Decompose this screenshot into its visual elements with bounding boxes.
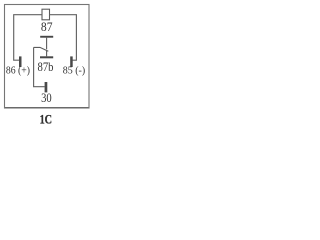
svg-text:87: 87 — [41, 20, 53, 34]
svg-text:87b: 87b — [38, 60, 54, 74]
contact 87b fixed NC contact (stub with bar) — [40, 51, 53, 59]
wire coil left side down to terminal 86 — [14, 15, 42, 61]
svg-text:30: 30 — [41, 91, 52, 105]
wire coil right side down to terminal 85 — [50, 15, 77, 61]
svg-text:1C: 1C — [40, 113, 52, 127]
contact 87 fixed NO contact (bar with stub) — [40, 36, 53, 50]
svg-text:86 (+): 86 (+) — [6, 66, 31, 77]
relay outline box — [4, 107, 89, 109]
wire armature pivot down to terminal 30 — [34, 47, 45, 86]
terminal 86 blade — [19, 56, 22, 67]
terminal 30 blade — [45, 82, 48, 92]
armature movable contact (common 30) — [34, 47, 49, 51]
coil K (relay coil box) — [42, 9, 50, 20]
terminal 85 blade — [70, 56, 73, 67]
svg-text:85 (-): 85 (-) — [63, 66, 86, 77]
